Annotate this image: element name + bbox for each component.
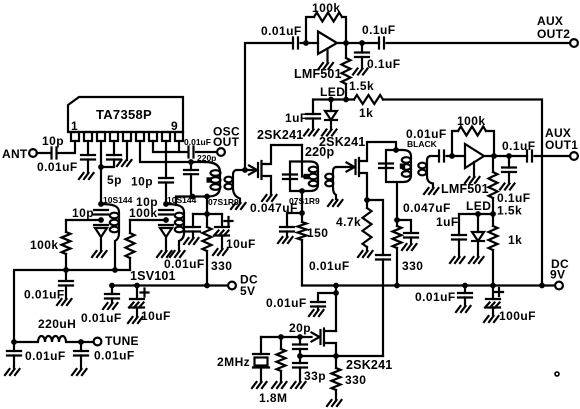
terminal DC 9V — [555, 282, 563, 290]
wire to AUX OUT2 — [387, 42, 571, 44]
wire 10uF 5V stem — [136, 286, 138, 300]
node amp1 input — [303, 40, 309, 46]
wire ground — [13, 356, 15, 370]
svg-text:0.01uF: 0.01uF — [266, 296, 307, 310]
coil L2 frame — [166, 204, 184, 251]
wire cap to amp1 — [301, 42, 319, 44]
IC U1 pin 9 — [175, 132, 183, 141]
wire amp2 ground stem — [473, 162, 475, 177]
node 330 OSC bottom — [204, 283, 210, 289]
wire T3 to amp2 input cap — [431, 155, 440, 157]
capacitor 0.01uF (5V rail) — [105, 294, 119, 299]
svg-text:0.01uF: 0.01uF — [184, 137, 211, 147]
svg-text:OUT: OUT — [213, 135, 240, 149]
wire ANT to C 10p — [37, 152, 51, 154]
ground (4.7k) — [358, 251, 373, 257]
wire varicap1 ground — [100, 237, 102, 251]
IC U1 pin 7 — [149, 132, 157, 141]
ground (330 Q3) — [327, 400, 342, 406]
node Q3 drain drop — [333, 283, 339, 289]
ground (10uF T1) — [213, 249, 228, 255]
capacitor 10uF electrolytic (5V) — [130, 298, 144, 300]
ground (0.047uF stage2) — [402, 244, 417, 250]
capacitor 0.01uF (T1 tap) — [186, 227, 200, 232]
node amp2 input — [449, 153, 455, 159]
node 0.01uF 9V — [462, 283, 468, 289]
wire ground — [136, 308, 138, 318]
capacitor 10p (varicap1) — [94, 210, 108, 215]
wire 5p to pin3 line — [101, 160, 114, 168]
wire 4.7k to ground — [366, 247, 368, 251]
transistor Q1 2SK241 arrow — [249, 166, 257, 175]
svg-text:330: 330 — [345, 373, 366, 387]
node 1.5k2 bottom — [490, 211, 496, 217]
terminal TUNE — [94, 338, 102, 346]
svg-text:100k: 100k — [312, 1, 341, 15]
varicap D2 1SV101/10S144 — [159, 224, 173, 226]
terminal OSC OUT — [217, 148, 225, 156]
wire Q1 drain to T2 tap — [302, 145, 304, 177]
ground (varicap1) — [92, 251, 107, 257]
wire tap row — [193, 213, 222, 215]
ground (T1 secondary) — [231, 203, 246, 209]
wire 1uF to ground — [312, 119, 314, 130]
node T1 tap row — [204, 211, 210, 217]
ground (amp1 shunt cap) — [353, 69, 368, 75]
svg-text:0.01uF: 0.01uF — [37, 160, 78, 174]
svg-text:0.047uF: 0.047uF — [403, 201, 451, 215]
IC U1 TA7358P body — [68, 97, 183, 132]
svg-text:0.01uF: 0.01uF — [24, 288, 65, 302]
node Q3 source — [333, 353, 339, 359]
node coil L1 bottom — [112, 267, 118, 273]
diode LED1 — [325, 111, 337, 120]
svg-text:100k: 100k — [457, 114, 486, 128]
wire amp2 output — [484, 155, 527, 157]
label + (10uF T1) — [225, 217, 233, 225]
capacitor 0.1uF (AUX OUT1 coupling) — [527, 151, 532, 162]
wire feedback2 left — [452, 131, 458, 156]
node amp1 output — [343, 40, 349, 46]
svg-text:OUT1: OUT1 — [545, 138, 578, 152]
wire LED2 ground — [477, 241, 479, 257]
ground (LED2) — [469, 257, 484, 263]
transformer T1 phase square — [207, 177, 212, 182]
wire 33p stem — [299, 356, 301, 363]
transformer T3 primary winding — [402, 157, 411, 163]
ground (T1 tap cap) — [184, 238, 199, 244]
svg-text:100uF: 100uF — [499, 309, 536, 323]
terminal ANT — [29, 149, 37, 157]
node 220p top — [188, 159, 194, 165]
ground (amp1) — [319, 63, 334, 69]
ground (varicap2) — [157, 251, 172, 257]
transformer T1 primary frame — [176, 162, 220, 205]
wire pin6 to tank T1 top rail — [140, 141, 205, 162]
svg-text:0.1uF: 0.1uF — [362, 23, 396, 37]
terminal DC 5V — [228, 282, 236, 290]
wire to ground — [317, 307, 319, 311]
IC U1 pin 1 — [71, 132, 79, 141]
wire LED node row — [313, 100, 354, 115]
ground (amp2 shunt) — [500, 184, 515, 190]
node 20p — [297, 334, 303, 340]
resistor 1.8M — [280, 337, 282, 349]
svg-text:4.7k: 4.7k — [336, 215, 361, 229]
capacitor 10p (pin8) — [159, 178, 173, 183]
svg-text:1.5k: 1.5k — [497, 204, 522, 218]
ground (0.047uF) — [278, 237, 293, 243]
transistor Q3 2SK241 arrow — [312, 333, 320, 342]
wire to ground — [87, 160, 89, 174]
transistor Q2 drain lead — [359, 142, 396, 161]
IC U1 pin 2 — [84, 132, 92, 141]
tank T3 frame — [386, 150, 411, 220]
capacitor 0.047uF (stage2) — [404, 233, 418, 238]
ground (coil L2) — [170, 251, 185, 257]
wire shunt2 ground — [508, 172, 510, 184]
svg-text:100k: 100k — [129, 206, 158, 220]
wire LED1 stem — [330, 100, 332, 112]
wire 33p ground — [299, 368, 301, 383]
wire 100k2 to varicap2 — [130, 219, 166, 221]
svg-text:ANT: ANT — [2, 147, 28, 161]
wire 100uF stem — [492, 286, 494, 300]
transistor Q1 drain lead — [262, 145, 303, 164]
ground (10uF 5V) — [128, 317, 143, 323]
ground (T3 secondary) — [424, 188, 439, 194]
capacitor 0.1uF (amp2 shunt) — [502, 168, 516, 173]
node 330/0.047uF (stage2) — [394, 217, 400, 223]
transformer T3 secondary winding — [418, 163, 426, 169]
node 220uH left — [11, 339, 17, 345]
ground (tune bus cap) — [57, 299, 72, 305]
resistor 1.5k (amp1 bias) — [345, 43, 347, 58]
transistor Q3 source lead — [324, 343, 336, 356]
transformer T3 secondary frame — [427, 156, 433, 188]
wire 0.047uF to ground — [286, 232, 288, 238]
IC U1 pin 5 — [123, 132, 131, 141]
op-amp U2 LMF501 triangle — [318, 32, 337, 55]
capacitor 0.01uF (Q3 drain) — [311, 302, 325, 307]
node Q2 source — [364, 197, 370, 203]
capacitor 0.01uF (9V rail) — [458, 293, 472, 298]
wire tune bus — [14, 270, 130, 342]
resistor 4.7k (Q2 source) — [366, 200, 368, 208]
node 100k1 bottom — [63, 267, 69, 273]
svg-text:1.5k: 1.5k — [349, 79, 374, 93]
node LED1 — [328, 97, 334, 103]
wire pin3 vertical — [100, 141, 102, 204]
wire 0.01uF 5V stem — [111, 286, 113, 295]
capacitor 220p (tank T2) — [283, 175, 297, 180]
node T3 top (Q2 drain) — [393, 147, 399, 153]
transformer T1 secondary winding — [225, 177, 233, 183]
wire injection cap down to Q3 source row — [382, 260, 384, 357]
svg-text:1: 1 — [71, 119, 78, 133]
wire to AUX OUT1 — [535, 155, 571, 157]
wire 220p branch — [190, 162, 192, 170]
node 330 bottom — [394, 283, 400, 289]
wire 20p stem — [299, 337, 301, 345]
svg-text:TUNE: TUNE — [105, 334, 139, 348]
wire shunt2 — [508, 156, 510, 168]
wire 220p to bottom rail — [190, 174, 192, 196]
resistor 1.5k (amp2 bias) — [492, 156, 494, 172]
svg-text:10uF: 10uF — [141, 309, 171, 323]
node LED2 — [475, 211, 481, 217]
transformer T2 phase square — [304, 174, 309, 179]
svg-text:330: 330 — [402, 259, 423, 273]
wire 20p to source row — [299, 349, 301, 356]
svg-text:1k: 1k — [508, 233, 522, 247]
wire OSC buffer to amplifier input — [245, 43, 293, 170]
wire ground — [221, 236, 223, 250]
capacitor 33p — [293, 363, 307, 368]
diode LED2 — [472, 232, 484, 241]
svg-text:1uF: 1uF — [436, 215, 459, 229]
node Q1 gate / buffer tap — [242, 167, 248, 173]
wire crystal stem — [260, 337, 262, 354]
wire shunt to ground — [361, 57, 363, 69]
wire 100uF ground — [492, 308, 494, 317]
node shunt cap tap — [359, 40, 365, 46]
wire tank T2 bottom to 150 — [301, 191, 303, 213]
svg-text:150: 150 — [307, 226, 328, 240]
svg-text:1k: 1k — [359, 106, 373, 120]
node tune terminal tap — [78, 339, 84, 345]
node varicap1 mid — [98, 217, 104, 223]
svg-text:100k: 100k — [30, 238, 59, 252]
wire amp1 ground stem — [326, 49, 328, 63]
wire Q1 gate arrow lead — [245, 169, 256, 171]
svg-text:5p: 5p — [107, 173, 122, 187]
transistor Q2 gate bar — [354, 160, 356, 174]
IC U1 pin 3 — [97, 132, 105, 141]
capacitor 5p on pin4 — [107, 155, 121, 160]
svg-text:220p: 220p — [197, 153, 216, 163]
svg-text:10p: 10p — [72, 206, 94, 220]
transistor Q1 gate bar — [257, 163, 259, 177]
capacitor 0.01uF (amp2 input) — [439, 151, 444, 162]
ground (Q3 0.01uF) — [309, 310, 324, 316]
svg-text:5V: 5V — [240, 284, 255, 298]
ground (1.8M) — [272, 382, 287, 388]
svg-text:330: 330 — [211, 259, 232, 273]
svg-text:10p: 10p — [42, 134, 64, 148]
wire pin7 to OSC coupling cap — [153, 141, 188, 152]
transformer T2 secondary winding — [325, 174, 333, 180]
wire ground — [111, 299, 113, 304]
node 0.01uF 5V — [109, 283, 115, 289]
transistor Q3 drain lead — [324, 330, 336, 332]
IC U1 pin 8 — [162, 132, 170, 141]
svg-text:TA7358P: TA7358P — [96, 107, 152, 122]
ground (0.01uF 9V) — [456, 306, 471, 312]
coil L1 frame — [101, 204, 119, 270]
resistor 330 (OSC supply) — [206, 214, 208, 227]
resistor 100k (amp2 feedback) — [458, 127, 486, 136]
resistor 1k (stage2) — [492, 214, 494, 226]
ground (tune right) — [72, 369, 87, 375]
wire LED2 row — [459, 213, 493, 215]
capacitor 0.01uF (tank T3) — [379, 164, 393, 169]
capacitor 20p — [293, 345, 307, 350]
capacitor 10uF electrolytic (T1) — [215, 226, 229, 228]
svg-text:0.01uF: 0.01uF — [261, 24, 302, 38]
wire to ground — [65, 286, 67, 300]
capacitor 0.1uF (AUX OUT2 coupling) — [379, 38, 384, 49]
svg-text:220uH: 220uH — [38, 317, 76, 331]
tank T2 frame — [290, 162, 318, 192]
wire pin4 down — [113, 141, 115, 155]
svg-text:0.01uF: 0.01uF — [94, 349, 135, 363]
capacitor 0.01uF (OSC out coupling) — [189, 147, 194, 158]
transformer T1 primary winding — [211, 170, 221, 176]
wire LED2 stem — [477, 214, 479, 232]
svg-text:0.1uF: 0.1uF — [502, 139, 536, 153]
ground (tune left) — [5, 369, 20, 375]
svg-text:0.01uF: 0.01uF — [25, 349, 66, 363]
wire 1k to 9V rail right side — [383, 100, 542, 286]
ground (33p) — [291, 382, 306, 388]
wire T1 tap down — [206, 197, 208, 215]
svg-text:0.01uF: 0.01uF — [309, 259, 350, 273]
inductor 220uH — [14, 336, 77, 342]
transistor Q3 channel — [323, 329, 325, 346]
wire feedback right — [342, 17, 346, 40]
resistor 330 (T3) — [396, 220, 398, 226]
wire cap to amp2 — [447, 155, 466, 157]
node shunt2 tap — [506, 153, 512, 159]
capacitor 1uF (LED2) — [452, 235, 466, 240]
wire to ground — [464, 298, 466, 307]
wire 1.8M ground — [280, 371, 282, 382]
crystal X1 2MHz — [253, 354, 269, 368]
svg-text:0.01uF: 0.01uF — [164, 257, 205, 271]
capacitor 0.01uF (tune left) — [13, 342, 15, 351]
node 1.8M — [278, 334, 284, 340]
wire Q3 gate row — [261, 336, 312, 338]
terminal AUX OUT1 — [570, 152, 578, 160]
node 150/0.047uF — [299, 210, 305, 216]
wire 10uF T1 stem — [221, 214, 223, 227]
wire to TUNE terminal — [81, 341, 92, 343]
node varicap1 top — [98, 201, 104, 207]
svg-text:2SK241: 2SK241 — [346, 358, 392, 372]
IC U1 pin 4 — [110, 132, 118, 141]
capacitor 0.01uF (osc injection) — [376, 255, 390, 260]
wire pin8 vertical — [165, 141, 167, 178]
node pin3/5p junction — [98, 164, 104, 170]
ground (T2 secondary) — [328, 200, 343, 206]
resistor 1k (stage1) — [354, 95, 383, 104]
svg-text:LED: LED — [320, 85, 345, 99]
stray dot — [555, 372, 559, 376]
svg-text:2SK241: 2SK241 — [257, 128, 303, 142]
transformer T2 secondary frame — [333, 167, 336, 199]
ground (crystal) — [252, 382, 267, 388]
transistor Q3 gate bar — [319, 330, 321, 344]
wire T1 to Q1 gate — [237, 169, 249, 171]
svg-text:1.8M: 1.8M — [259, 391, 287, 405]
wire 5V rail — [112, 284, 227, 286]
resistor 100k (varicap2 feed) — [129, 220, 131, 233]
svg-text:0.01uF: 0.01uF — [81, 311, 122, 325]
transistor Q1 channel — [260, 161, 262, 179]
ground (amp2) — [465, 177, 480, 183]
wire 0.01uF 9V stem — [464, 286, 466, 294]
node 1k wire — [539, 283, 545, 289]
ground (LED1) — [322, 130, 337, 136]
wire 0.01uF T1 stem — [192, 214, 194, 227]
capacitor 0.01uF (tune bus) — [59, 281, 73, 286]
wire 1uF2 stem — [458, 214, 460, 235]
resistor 150 — [301, 213, 303, 222]
node 33p — [297, 353, 303, 359]
svg-text:AUX: AUX — [537, 14, 563, 28]
wire T2 to Q2 gate — [336, 166, 353, 168]
ground (0.01uF 5V) — [103, 303, 118, 309]
svg-text:BLACK: BLACK — [407, 139, 438, 149]
capacitor 220p (tank T1) — [184, 170, 198, 174]
wire feedback left — [306, 17, 314, 43]
capacitor 10p (varicap2) — [159, 210, 173, 215]
svg-text:0.047uF: 0.047uF — [250, 201, 298, 215]
resistor 100k (varicap1 feed) — [65, 220, 67, 232]
svg-text:10p: 10p — [131, 175, 153, 189]
ground (1uF stage2) — [450, 257, 465, 263]
capacitor 0.1uF (amp1 shunt) — [355, 53, 369, 58]
capacitor 100uF electrolytic — [486, 298, 500, 300]
wire to 0.047uF stage2 — [397, 220, 411, 233]
wire 9V rail — [302, 284, 556, 286]
varicap D1 1SV101/10S144 — [94, 224, 108, 226]
ground (pin2 cap) — [79, 173, 94, 179]
transformer T2 primary winding — [309, 167, 318, 173]
transformer T1 secondary frame — [233, 170, 240, 203]
capacitor 10p (ANT coupling) — [52, 148, 57, 159]
transformer T3 phase square — [400, 164, 405, 169]
wire 100k to varicap1 — [66, 219, 101, 221]
svg-text:9: 9 — [171, 119, 178, 133]
coil L2 winding — [175, 213, 184, 219]
node 220p bottom — [190, 194, 196, 200]
node 1.5k bottom — [343, 97, 349, 103]
transistor Q1 source lead — [262, 176, 272, 195]
capacitor 0.01uF (tune right) — [80, 342, 82, 351]
node tank T2 bottom — [299, 188, 305, 194]
wire source row to injection line — [300, 355, 383, 357]
svg-text:220p: 220p — [305, 145, 334, 159]
wire pin5 to ground — [126, 141, 128, 160]
svg-text:0.1uF: 0.1uF — [367, 57, 401, 71]
svg-text:10uF: 10uF — [226, 237, 256, 251]
wire 0.01uF bus stem — [65, 270, 67, 281]
capacitor 1uF (LED1) — [306, 114, 320, 119]
wire decoupling 0.01uF — [318, 293, 336, 302]
capacitor 0.01uF on pin2 — [81, 155, 95, 160]
wire crystal ground — [260, 368, 262, 383]
svg-text:2MHz: 2MHz — [217, 355, 250, 369]
wire ground — [80, 356, 82, 370]
wire feedback2 right — [486, 131, 494, 153]
wire Q2 source to osc injection — [367, 200, 383, 255]
transistor Q2 2SK241 arrow — [347, 163, 355, 172]
resistor 330 (Q3 source) — [335, 356, 337, 368]
svg-text:20p: 20p — [289, 321, 311, 335]
wire C 10p to pin1 — [59, 141, 76, 153]
